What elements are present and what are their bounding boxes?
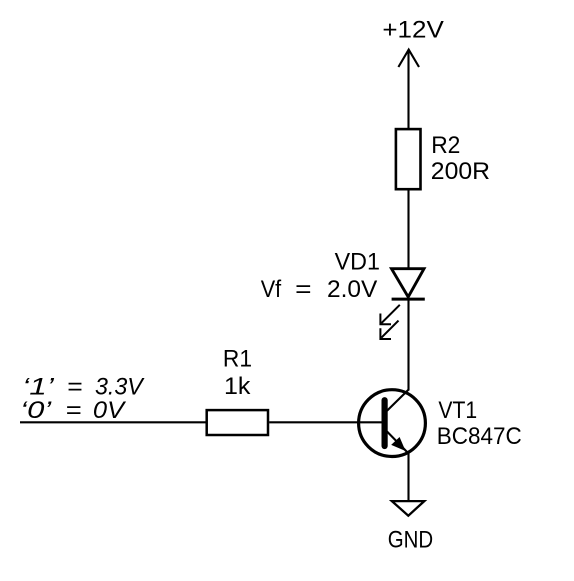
wire R1 to base xyxy=(269,421,381,423)
wire emitter to GND xyxy=(407,454,409,502)
svg-text:VD1: VD1 xyxy=(335,249,380,276)
input wire xyxy=(20,421,206,423)
transistor VT1 xyxy=(359,389,426,456)
svg-text:GND: GND xyxy=(388,526,433,553)
svg-text:+12V: +12V xyxy=(382,17,443,44)
ground xyxy=(392,501,424,516)
wire VD1 to VT1 collector xyxy=(407,299,409,391)
wire +12V to R2 xyxy=(407,50,409,128)
wire R2 to VD1 xyxy=(407,191,409,270)
LED light arrow 1 xyxy=(380,305,399,324)
svg-text:R2: R2 xyxy=(431,132,460,159)
resistor R2 xyxy=(396,129,421,189)
svg-text:1k: 1k xyxy=(224,373,251,400)
svg-text:R1: R1 xyxy=(223,345,252,372)
LED VD1 diode xyxy=(392,269,425,299)
svg-text:VT1: VT1 xyxy=(438,397,477,424)
power arrow +12V xyxy=(398,50,419,67)
resistor R1 xyxy=(207,410,268,435)
svg-text:‘0’=0V: ‘0’=0V xyxy=(20,397,126,424)
LED light arrow 2 xyxy=(380,321,398,339)
svg-text:Vf=2.0V: Vf=2.0V xyxy=(261,276,378,303)
svg-text:200R: 200R xyxy=(431,158,490,185)
svg-text:BC847C: BC847C xyxy=(437,423,522,450)
